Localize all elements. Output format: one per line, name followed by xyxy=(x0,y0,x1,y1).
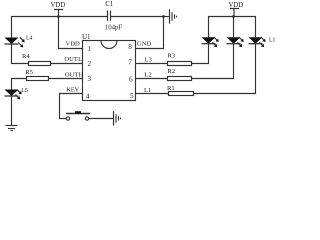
resistor R3 xyxy=(168,53,192,66)
svg-text:8: 8 xyxy=(128,43,132,51)
svg-text:104pF: 104pF xyxy=(105,25,123,32)
node junction at top rail / GND wire xyxy=(162,15,165,18)
svg-text:R1: R1 xyxy=(167,85,175,92)
svg-text:VDD: VDD xyxy=(66,41,81,48)
LED L1 (right of group) xyxy=(249,37,276,47)
svg-text:C1: C1 xyxy=(105,1,113,8)
capacitor C1 xyxy=(105,1,123,31)
svg-text:VDD: VDD xyxy=(51,2,66,9)
LED (net L2, middle of group) xyxy=(227,37,244,47)
wire LED L4 cathode down to R4 left xyxy=(12,44,29,64)
svg-text:5: 5 xyxy=(130,92,134,100)
wire R5 left down to LED L5 anode xyxy=(12,79,27,90)
LED (net L3, left of group) xyxy=(202,37,219,47)
wire pin 5 (L1) to R1 xyxy=(136,93,169,95)
svg-text:L1: L1 xyxy=(144,87,151,94)
svg-text:3: 3 xyxy=(88,75,92,83)
wire VDD node down to pin 1 xyxy=(59,17,83,49)
wire LED L5 cathode to ground xyxy=(11,96,13,126)
svg-text:KEY: KEY xyxy=(66,87,79,94)
svg-text:R2: R2 xyxy=(168,68,176,75)
svg-text:R4: R4 xyxy=(22,53,30,60)
wire R3 up to first LED cathode xyxy=(192,44,209,64)
wire R2 up to middle LED cathode xyxy=(192,44,234,79)
wire R1 up to right LED cathode xyxy=(194,44,256,94)
wire push button to ground xyxy=(89,118,114,120)
wire top-left rail from corner to C1 left plate xyxy=(12,17,108,38)
svg-text:1: 1 xyxy=(88,45,92,53)
svg-text:L5: L5 xyxy=(21,88,28,94)
wire middle LED anode stem xyxy=(233,17,235,38)
resistor R1 xyxy=(167,85,194,96)
svg-text:R5: R5 xyxy=(25,69,33,76)
svg-text:L2: L2 xyxy=(144,72,151,79)
wire top-right VDD rail xyxy=(209,17,256,38)
svg-text:R3: R3 xyxy=(168,53,176,60)
svg-text:7: 7 xyxy=(128,58,132,66)
ground (bottom middle, rotated earth) xyxy=(114,111,121,125)
resistor R2 xyxy=(168,68,192,80)
resistor R5 xyxy=(25,69,48,81)
power VDD (top right) xyxy=(229,2,244,18)
ground (bottom left, earth) xyxy=(6,126,18,131)
IC U1 (DIP-8) body xyxy=(82,33,136,101)
wire pin 7 (L3) to R3 xyxy=(136,63,168,65)
svg-text:6: 6 xyxy=(129,75,133,83)
svg-text:U1: U1 xyxy=(82,33,91,41)
wire GND pin 8 up to top rail junction xyxy=(136,17,164,49)
LED L4 xyxy=(5,36,33,48)
wire pin 6 (L2) to R2 xyxy=(136,78,168,80)
svg-text:VDD: VDD xyxy=(229,2,244,9)
svg-text:2: 2 xyxy=(88,60,92,68)
wire C1 right plate to junction xyxy=(111,16,164,18)
wire pin 2 (OUTL) to R4 xyxy=(51,63,83,65)
push button switch xyxy=(66,111,90,120)
svg-text:L4: L4 xyxy=(26,36,33,42)
ground (top right, rotated earth) xyxy=(164,9,177,23)
svg-text:OUTH: OUTH xyxy=(65,71,84,78)
svg-text:GND: GND xyxy=(137,41,152,48)
LED L5 xyxy=(5,88,28,100)
svg-text:4: 4 xyxy=(86,92,90,100)
svg-text:L3: L3 xyxy=(145,57,153,64)
power VDD (top left) xyxy=(51,2,66,18)
wire pin 4 (KEY) to push button xyxy=(60,94,83,119)
svg-text:OUTL: OUTL xyxy=(64,56,82,63)
resistor R4 xyxy=(22,53,51,66)
wire pin 3 (OUTH) to R5 xyxy=(49,78,83,80)
svg-text:L1: L1 xyxy=(269,38,276,44)
